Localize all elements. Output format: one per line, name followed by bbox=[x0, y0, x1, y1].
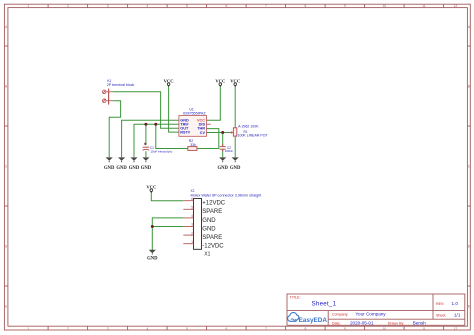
svg-text:6: 6 bbox=[191, 197, 193, 201]
svg-text:ICM7555IPAZ: ICM7555IPAZ bbox=[183, 111, 207, 115]
svg-text:2: 2 bbox=[191, 231, 193, 235]
svg-text:6: 6 bbox=[226, 4, 228, 8]
svg-text:GND: GND bbox=[129, 166, 140, 171]
svg-text:E: E bbox=[5, 304, 7, 308]
junction C2/CV node bbox=[221, 131, 224, 134]
svg-text:Drawn By:: Drawn By: bbox=[388, 321, 405, 325]
svg-text:3: 3 bbox=[107, 4, 109, 8]
svg-text:4: 4 bbox=[191, 214, 193, 218]
svg-text:100K LINEAR POT: 100K LINEAR POT bbox=[238, 134, 269, 138]
wire C1 bottom to ground bbox=[145, 151, 147, 157]
svg-text:Sheet_1: Sheet_1 bbox=[312, 301, 337, 308]
wire C1 top branch bbox=[145, 124, 147, 145]
svg-text:Your Company: Your Company bbox=[355, 312, 386, 317]
ground GND 4 bbox=[141, 157, 152, 171]
svg-text:8: 8 bbox=[305, 327, 307, 331]
svg-text:Company:: Company: bbox=[332, 313, 348, 317]
wire R2 right to U1 THR bbox=[197, 129, 219, 149]
connector X1 Molex 6P body bbox=[194, 199, 202, 250]
power flag VCC at U1 RST# bbox=[164, 79, 174, 87]
svg-text:Date:: Date: bbox=[332, 321, 341, 325]
pin 1 of X1 bbox=[183, 243, 193, 245]
svg-text:12: 12 bbox=[454, 327, 458, 331]
wire VCC to U1 RST# bbox=[169, 86, 179, 132]
pin 6 of X1 bbox=[183, 200, 193, 202]
svg-text:2: 2 bbox=[67, 4, 69, 8]
svg-text:CV: CV bbox=[200, 131, 206, 135]
svg-text:10: 10 bbox=[383, 4, 387, 8]
svg-text:SPARE: SPARE bbox=[202, 235, 222, 241]
svg-text:7: 7 bbox=[265, 4, 267, 8]
op-amp-style IC U1 ICM7555IPAZ body bbox=[179, 116, 211, 137]
power flag VCC at X1 pin6 bbox=[146, 184, 156, 192]
svg-text:A-2962 100K: A-2962 100K bbox=[238, 124, 259, 128]
pin 3 of X1 bbox=[183, 226, 193, 228]
svg-text:RST#: RST# bbox=[180, 131, 191, 135]
junction C1/TRI# node bbox=[144, 123, 147, 126]
svg-text:7: 7 bbox=[265, 327, 267, 331]
svg-text:1: 1 bbox=[27, 327, 29, 331]
svg-text:12: 12 bbox=[454, 4, 458, 8]
svg-text:2: 2 bbox=[67, 327, 69, 331]
connector K1 2P terminal block bbox=[102, 89, 112, 105]
ground GND 1 bbox=[104, 157, 115, 171]
ground GND 6 bbox=[230, 157, 241, 171]
svg-text:5: 5 bbox=[186, 4, 188, 8]
svg-text:X1: X1 bbox=[204, 251, 210, 257]
svg-text:100nF: 100nF bbox=[225, 149, 234, 153]
wire X1 pin 3 to ground bbox=[152, 227, 183, 251]
svg-text:B: B bbox=[5, 84, 7, 88]
ground GND 7 bbox=[147, 250, 158, 262]
svg-text:GND: GND bbox=[116, 166, 127, 171]
ground GND 3 bbox=[129, 157, 140, 171]
svg-text:2020-05-01: 2020-05-01 bbox=[350, 320, 374, 325]
svg-text:Bensh: Bensh bbox=[413, 320, 426, 325]
svg-text:11: 11 bbox=[422, 327, 426, 331]
svg-text:4: 4 bbox=[147, 327, 149, 331]
svg-text:REV:: REV: bbox=[436, 302, 444, 306]
svg-text:Sheet:: Sheet: bbox=[436, 313, 446, 317]
wire U1 TRI# net to ground leg bbox=[134, 124, 179, 157]
svg-text:-12VDC: -12VDC bbox=[202, 244, 224, 250]
capacitor C1 10uF electrolytic bbox=[143, 143, 150, 151]
svg-text:2P terminal block: 2P terminal block bbox=[107, 83, 135, 87]
svg-text:1: 1 bbox=[191, 240, 193, 244]
pin 4 of X1 bbox=[183, 217, 193, 219]
wire R1 bottom to ground bbox=[234, 136, 236, 157]
svg-text:GND: GND bbox=[217, 166, 228, 171]
svg-text:11: 11 bbox=[422, 4, 426, 8]
pin 2 of X1 bbox=[183, 234, 193, 236]
pin 5 of X1 bbox=[183, 208, 193, 210]
ground GND 2 bbox=[116, 157, 127, 171]
wire K1 pin1 to U1 OUT bbox=[113, 92, 179, 128]
power flag VCC at U1 VCC pin bbox=[215, 79, 225, 87]
wire K1 pin2 to ground bbox=[109, 101, 120, 158]
wire VCC to U1 VCC pin bbox=[207, 86, 221, 120]
wire U1 CV to R1 wiper bbox=[207, 132, 231, 134]
svg-text:GND: GND bbox=[202, 226, 216, 232]
wire VCC to R1 top bbox=[234, 86, 236, 128]
svg-text:4: 4 bbox=[147, 4, 149, 8]
capacitor C2 100nF bbox=[220, 144, 226, 152]
power flag VCC at R1 bbox=[230, 79, 240, 87]
svg-text:GND: GND bbox=[202, 218, 216, 224]
resistor R2 bbox=[188, 147, 197, 151]
junction X1 GND pins bbox=[151, 225, 154, 228]
svg-text:3: 3 bbox=[107, 327, 109, 331]
wire X1 pin 4 to ground net bbox=[152, 218, 183, 227]
svg-text:6: 6 bbox=[226, 327, 228, 331]
svg-text:GND: GND bbox=[141, 166, 152, 171]
svg-text:1.0: 1.0 bbox=[452, 301, 459, 306]
svg-text:3: 3 bbox=[191, 223, 193, 227]
svg-text:5: 5 bbox=[191, 206, 193, 210]
svg-text:33k: 33k bbox=[190, 143, 196, 147]
svg-text:10: 10 bbox=[383, 327, 387, 331]
svg-text:9: 9 bbox=[344, 4, 346, 8]
wire TRI# node to R2 left bbox=[156, 124, 188, 148]
svg-text:B: B bbox=[468, 84, 470, 88]
junction R2/TRI# node bbox=[154, 123, 157, 126]
svg-text:GND: GND bbox=[230, 166, 241, 171]
svg-text:SPARE: SPARE bbox=[202, 209, 222, 215]
svg-text:9: 9 bbox=[344, 327, 346, 331]
svg-text:1/1: 1/1 bbox=[454, 312, 461, 317]
ground GND 5 bbox=[217, 157, 228, 171]
wire U1 GND pin to ground bbox=[122, 120, 179, 157]
wire C2 bottom to ground bbox=[222, 150, 224, 158]
svg-text:8: 8 bbox=[305, 4, 307, 8]
svg-text:EasyEDA: EasyEDA bbox=[299, 317, 328, 324]
svg-text:10uF electrolytic: 10uF electrolytic bbox=[150, 150, 172, 154]
svg-text:5: 5 bbox=[186, 327, 188, 331]
svg-text:E: E bbox=[468, 304, 470, 308]
potentiometer R1 100K bbox=[229, 128, 237, 136]
svg-text:+12VDC: +12VDC bbox=[202, 201, 226, 207]
svg-text:GND: GND bbox=[147, 257, 158, 262]
svg-text:GND: GND bbox=[104, 166, 115, 171]
svg-text:1: 1 bbox=[27, 4, 29, 8]
svg-text:TITLE:: TITLE: bbox=[290, 296, 301, 300]
svg-text:X2: X2 bbox=[191, 189, 195, 193]
wire C2 top branch bbox=[222, 133, 224, 147]
svg-text:Molex Wafer 6P connector 3.96m: Molex Wafer 6P connector 3.96mm straight bbox=[191, 193, 262, 197]
wire VCC to X1 pin 6 bbox=[151, 192, 183, 201]
